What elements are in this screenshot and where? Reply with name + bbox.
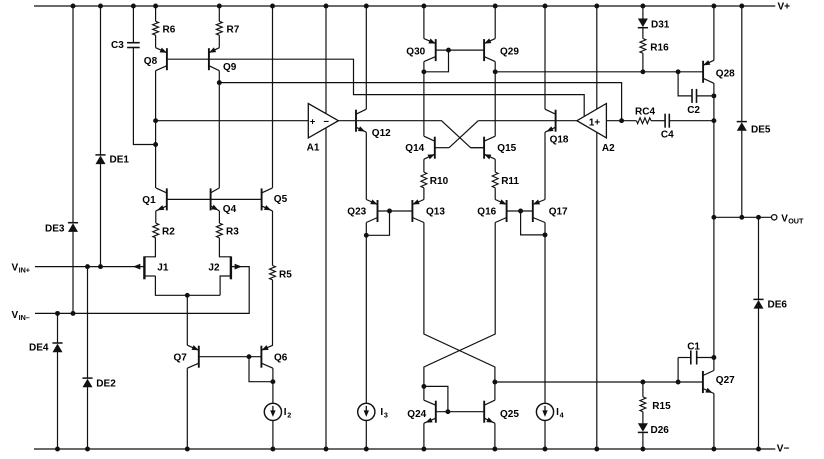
svg-text:Q24: Q24 (407, 409, 426, 420)
svg-text:DE1: DE1 (110, 155, 130, 166)
wire Q12 emitter to Q23 (365, 132, 367, 199)
svg-text:Q15: Q15 (497, 143, 516, 154)
resistor R10 (421, 159, 449, 199)
node VOUT line (711, 213, 804, 225)
wire Q23 collector to I3 (364, 223, 369, 450)
svg-text:IN–: IN– (19, 313, 30, 322)
transistor Q25 (484, 400, 519, 423)
wire D31 top lead (642, 6, 644, 19)
current source I2 (264, 403, 291, 420)
diode D31 (638, 19, 670, 31)
svg-text:J2: J2 (208, 262, 220, 273)
svg-text:Q1: Q1 (142, 195, 156, 206)
svg-text:C4: C4 (661, 129, 674, 140)
wire A1 input line (156, 120, 309, 122)
transistor Q13 (412, 199, 445, 222)
capacitor C2 with leads (678, 72, 714, 116)
svg-text:DE2: DE2 (96, 378, 116, 389)
wire A1 output line to Q12 and Q15 (338, 121, 484, 148)
wire Q23-Q13 base with diode link (366, 209, 412, 236)
svg-text:OUT: OUT (788, 216, 804, 225)
transistor Q6 (261, 345, 287, 368)
svg-text:Q4: Q4 (223, 204, 237, 215)
wire RC4 to C4 (651, 120, 665, 122)
transistor Q29 (484, 38, 519, 61)
svg-text:Q5: Q5 (274, 194, 288, 205)
svg-text:DE4: DE4 (29, 343, 49, 354)
diode DE3 (45, 223, 78, 235)
wire Q8 collector column (153, 71, 158, 188)
op-amp buffer A1 (307, 104, 339, 154)
svg-text:IN+: IN+ (19, 266, 30, 275)
svg-text:2: 2 (287, 411, 291, 420)
wire Q29 collector line to Q28 base (493, 62, 703, 137)
wire A2 supply column (596, 6, 598, 449)
op-amp buffer A2 (577, 104, 615, 154)
svg-text:V: V (12, 310, 19, 321)
node VIN- input line (12, 267, 250, 322)
wire Q7-Q6 base with diode link (199, 354, 273, 381)
diode D26 (638, 423, 669, 436)
svg-text:A1: A1 (307, 142, 320, 153)
svg-text:V+: V+ (778, 2, 791, 13)
resistor R7 (216, 6, 239, 48)
svg-text:3: 3 (384, 411, 388, 420)
wire Q27 emitter to V- (713, 394, 715, 450)
wire Q30-Q29 base with diode link (424, 48, 484, 72)
svg-text:+: + (310, 117, 316, 128)
transistor Q8 (144, 48, 167, 71)
wire D26 to V- (642, 432, 644, 449)
wire Q9 collector net to A2 output (217, 71, 622, 188)
transistor Q5 (262, 188, 288, 211)
transistor Q14 (405, 136, 449, 159)
svg-text:Q13: Q13 (426, 206, 445, 217)
current source I3 (358, 403, 388, 420)
svg-text:Q7: Q7 (174, 352, 188, 363)
diode DE4 (29, 343, 63, 354)
wire Q16 collector cross to Q24 (421, 223, 495, 401)
diode DE2 (82, 378, 116, 389)
wire DE4 column (57, 313, 59, 449)
wire DE5 column (741, 6, 743, 217)
resistor RC4 (635, 106, 655, 123)
svg-text:C3: C3 (111, 40, 124, 51)
wire Q28 emitter to V+ (713, 6, 715, 60)
svg-text:DE6: DE6 (768, 300, 788, 311)
wire Q1-Q5 base line (167, 198, 262, 200)
wire C3 column (133, 6, 155, 145)
transistor Q12 (356, 109, 391, 139)
wire A2 input line (478, 120, 577, 122)
transistor Q23 (347, 199, 377, 222)
wire DE6 column (758, 217, 760, 449)
wire DE3 column (72, 6, 74, 313)
node VIN+ input line (12, 263, 145, 275)
svg-text:R6: R6 (163, 25, 176, 36)
wire Q27 collector column (711, 217, 716, 370)
wire A1 supply column (325, 6, 327, 449)
capacitor C4 (661, 114, 674, 141)
resistor R15 (640, 397, 671, 412)
svg-text:Q9: Q9 (223, 62, 237, 73)
diode DE5 (737, 122, 771, 136)
svg-text:Q14: Q14 (405, 143, 424, 154)
transistor Q4 (211, 188, 237, 215)
wire J1-J2 common source to Q7 (155, 276, 220, 345)
svg-text:R15: R15 (652, 401, 671, 412)
svg-text:Q29: Q29 (500, 46, 519, 57)
wire Q24 emitter to V- (423, 423, 425, 449)
wire R15 top lead (642, 382, 644, 397)
diode DE6 (753, 299, 787, 310)
wire Q8-Q9 base net stepping to A2 (167, 59, 584, 116)
wire Q25 emitter to V- (494, 423, 496, 449)
svg-text:Q16: Q16 (477, 206, 496, 217)
wire Q18 emitter to Q17 (544, 132, 546, 199)
svg-text:Q25: Q25 (500, 409, 519, 420)
wire R16 to Q28 base line (642, 53, 644, 72)
resistor R11 (492, 159, 519, 199)
wire Q12 collector to V+ (365, 6, 367, 109)
transistor Q9 (209, 47, 237, 73)
svg-text:R3: R3 (226, 226, 239, 237)
resistor R6 (153, 6, 176, 48)
svg-text:V−: V− (777, 444, 790, 455)
wire Q30 emitter to V+ (423, 6, 425, 39)
transistor Q18 (545, 109, 569, 145)
svg-text:C2: C2 (687, 105, 700, 116)
svg-text:−: − (323, 116, 329, 127)
svg-text:DE5: DE5 (751, 124, 771, 135)
svg-text:Q12: Q12 (372, 128, 391, 139)
svg-text:R11: R11 (501, 176, 519, 187)
svg-text:V: V (12, 263, 19, 274)
resistor R16 (640, 39, 669, 54)
transistor Q17 (533, 200, 568, 223)
wire A2 output to RC4 (606, 118, 636, 123)
svg-text:D26: D26 (651, 425, 670, 436)
wire D31 to R16 (642, 28, 644, 39)
transistor Q15 (471, 136, 517, 159)
wire Q28 collector column to VOUT (711, 83, 716, 217)
svg-text:Q27: Q27 (716, 375, 735, 386)
svg-text:Q23: Q23 (347, 206, 366, 217)
wire Q7 collector to V- (186, 368, 188, 449)
diode DE1 (95, 155, 129, 166)
svg-text:C1: C1 (687, 341, 700, 352)
transistor Q27 (703, 371, 735, 394)
wire Q27 base line from Q25 (495, 380, 703, 385)
svg-text:R7: R7 (227, 25, 240, 36)
capacitor C3 (111, 40, 140, 51)
transistor Q1 (142, 188, 167, 211)
svg-text:DE3: DE3 (45, 224, 65, 235)
wire Q30/Q14 collector column (421, 62, 426, 137)
transistor Q7 (174, 345, 199, 368)
svg-text:4: 4 (560, 411, 564, 420)
wire Q5 collector to V+ (272, 6, 274, 188)
wire Q16-Q17 base with diode link (507, 209, 545, 235)
transistor Q24 (407, 400, 436, 423)
svg-text:RC4: RC4 (635, 106, 655, 117)
wire C4 to Q28 collector node (669, 118, 716, 123)
resistor R5 (270, 211, 293, 345)
resistor R2 (153, 211, 175, 238)
svg-text:Q6: Q6 (274, 352, 288, 363)
wire Q6 collector to I2 (270, 368, 275, 449)
wire Q14 base cross diagonal to A2 line (449, 121, 478, 148)
V+ rail (34, 2, 790, 13)
svg-text:1+: 1+ (589, 117, 600, 128)
wire R15 to D26 (642, 412, 644, 424)
svg-text:R2: R2 (162, 226, 175, 237)
V- rail (34, 444, 789, 455)
svg-text:Q18: Q18 (550, 134, 569, 145)
transistor Q16 (477, 199, 506, 222)
current source I4 (536, 403, 563, 420)
svg-text:Q17: Q17 (549, 206, 568, 217)
svg-text:D31: D31 (651, 20, 670, 31)
wire Q13 collector cross to Q25 (424, 223, 497, 401)
svg-text:R5: R5 (279, 269, 292, 280)
svg-text:A2: A2 (602, 143, 615, 154)
svg-text:R16: R16 (650, 43, 669, 54)
svg-text:J1: J1 (157, 262, 169, 273)
JFET J2 (208, 238, 242, 295)
wire Q17 collector to I4 (543, 223, 548, 450)
svg-text:Q28: Q28 (716, 68, 735, 79)
svg-text:R10: R10 (430, 176, 449, 187)
transistor Q28 (703, 60, 735, 83)
transistor Q30 (406, 39, 435, 62)
resistor R3 (216, 211, 239, 238)
wire DE1 column (100, 6, 102, 267)
wire Q29 emitter to V+ (494, 6, 496, 39)
wire Q18 collector to V+ (544, 6, 546, 109)
svg-text:Q8: Q8 (144, 56, 158, 67)
wire DE2 column (87, 267, 89, 449)
svg-text:Q30: Q30 (406, 46, 425, 57)
capacitor C1 with leads (678, 341, 714, 382)
JFET J1 (133, 238, 169, 279)
wire Q24-Q25 base with diode link (424, 386, 484, 414)
